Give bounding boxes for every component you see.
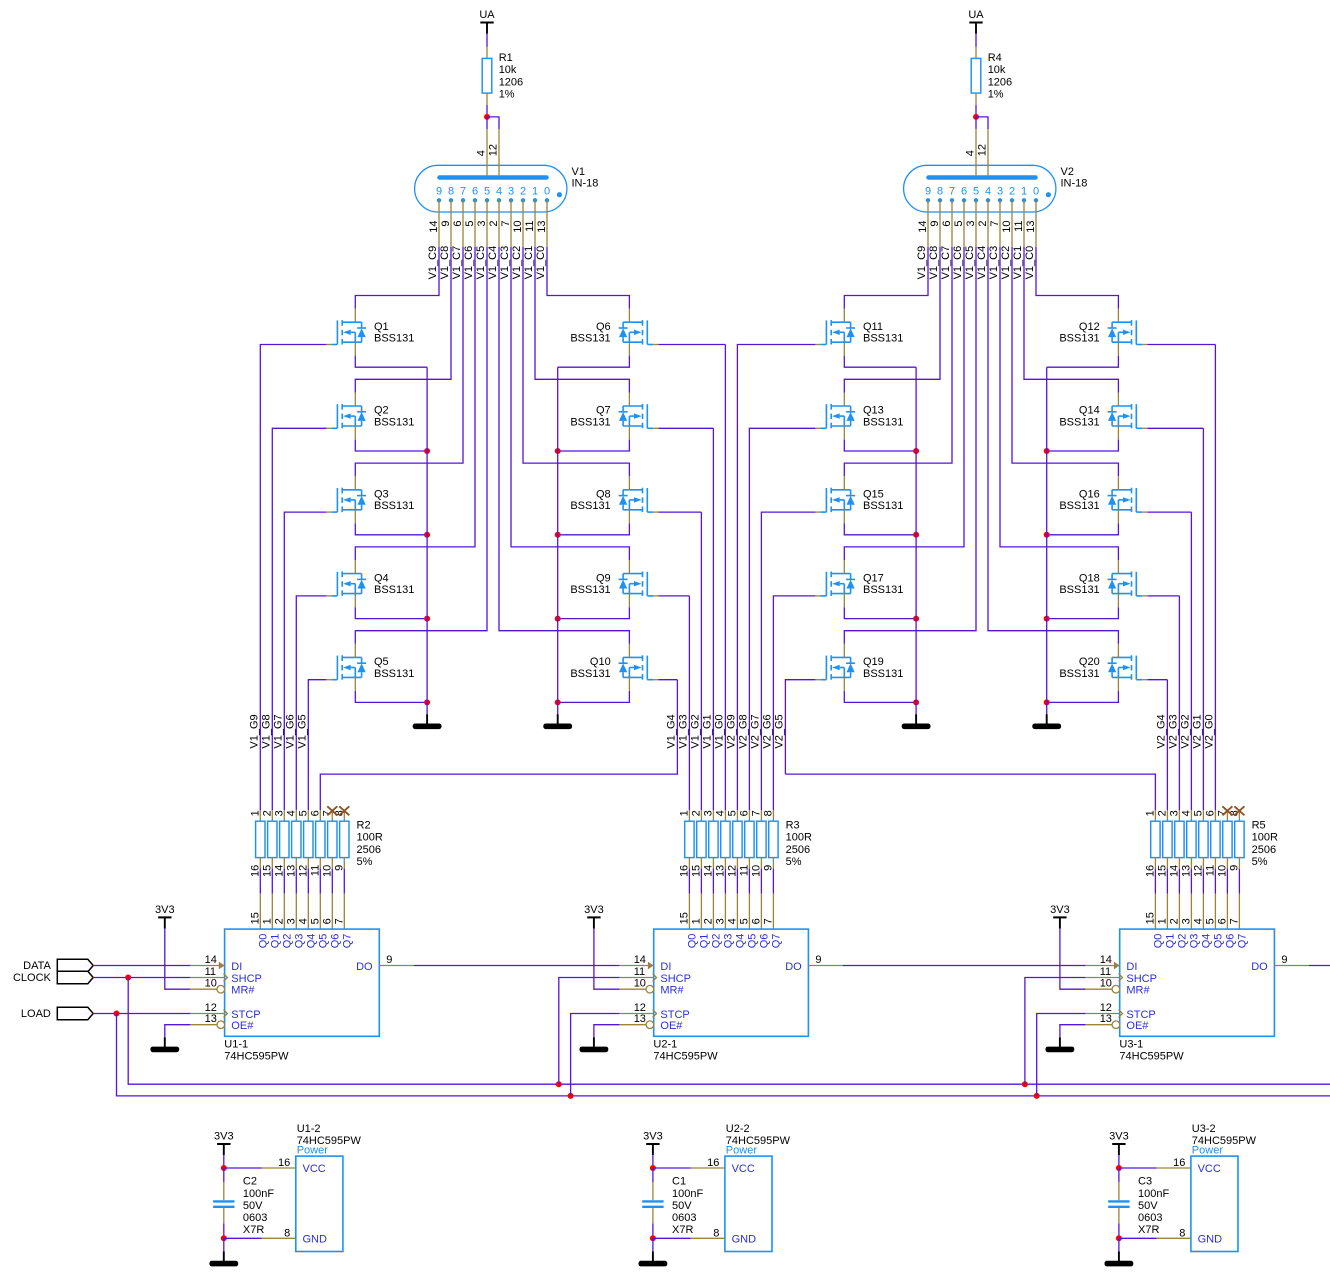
cathode pin lead V1_C3 [999,200,1001,246]
wire CLOCK to U3 [1025,978,1086,1085]
svg-text:V1_G3: V1_G3 [678,714,690,748]
wire V2_G7 [761,512,815,810]
svg-text:Q6: Q6 [596,321,611,333]
svg-text:12: 12 [1192,865,1204,877]
cathode pin lead V1_C3 [510,200,512,246]
cathode pin lead V1_C9 [927,200,929,246]
cathode pin lead V1_C2 [522,200,524,246]
wire V1_C1 to drain [535,247,629,393]
svg-text:2: 2 [702,918,714,924]
wire to ground [223,1238,225,1251]
svg-text:BSS131: BSS131 [1059,668,1099,680]
svg-text:14: 14 [917,221,929,233]
svg-text:100R: 100R [1252,832,1278,844]
svg-text:9: 9 [440,221,452,227]
svg-text:1: 1 [678,810,690,816]
svg-text:Q20: Q20 [1079,656,1100,668]
svg-text:6: 6 [309,810,321,816]
svg-text:DO: DO [356,961,373,973]
svg-text:Q1: Q1 [374,321,389,333]
svg-text:2: 2 [261,810,273,816]
pin 11 SHCP [1085,966,1157,985]
svg-text:6: 6 [452,221,464,227]
port DATA [23,959,93,972]
svg-text:9: 9 [929,221,941,227]
svg-text:10: 10 [1001,221,1013,233]
svg-text:15: 15 [678,912,690,924]
svg-text:Q5: Q5 [318,934,330,949]
svg-text:Q6: Q6 [330,934,342,949]
svg-text:V1_C9: V1_C9 [916,246,928,280]
transistor Q20 [1059,644,1147,691]
wire V1_C6 to drain [355,247,475,560]
svg-text:2506: 2506 [786,844,810,856]
power UA [479,9,495,34]
svg-text:4: 4 [726,918,738,924]
svg-text:V1_G2: V1_G2 [690,714,702,748]
svg-text:Power: Power [297,1145,329,1157]
svg-text:UA: UA [968,9,984,21]
svg-text:DI: DI [1126,961,1137,973]
svg-text:10: 10 [750,865,762,877]
svg-text:3: 3 [714,918,726,924]
wire to register [1202,869,1204,894]
svg-text:Q3: Q3 [374,489,389,501]
ground [902,714,931,729]
svg-text:BSS131: BSS131 [374,668,414,680]
wire V1_C0 to drain [1036,247,1118,309]
svg-text:100nF: 100nF [243,1188,274,1200]
svg-text:Q11: Q11 [863,321,883,333]
svg-text:Q19: Q19 [863,656,884,668]
pin 10 MR# [190,978,255,997]
wire LOAD bus [117,1014,1330,1096]
svg-text:8: 8 [713,1227,719,1239]
svg-text:Q18: Q18 [1079,572,1100,584]
pin 14 DI [619,954,671,973]
svg-text:R1: R1 [499,52,513,64]
wire UA to R4 [975,34,977,47]
power 3V3 [1109,1130,1129,1155]
wire to ground [652,1238,654,1251]
svg-text:1: 1 [1021,185,1027,197]
wire to register [724,869,726,894]
svg-text:Q2: Q2 [711,934,723,949]
svg-text:16: 16 [1173,1157,1185,1169]
svg-text:50V: 50V [243,1200,263,1212]
svg-text:Q1: Q1 [699,934,711,949]
junction VCC [1116,1165,1122,1171]
svg-text:V2_G4: V2_G4 [1156,714,1168,748]
junction LOAD [114,1011,120,1017]
svg-text:8: 8 [1179,1227,1185,1239]
svg-text:50V: 50V [1138,1200,1158,1212]
wire V2_G2 vertical [1190,512,1192,810]
svg-text:3V3: 3V3 [1109,1130,1129,1142]
wire to register [772,869,774,894]
svg-text:R5: R5 [1252,820,1266,832]
svg-text:V1_G8: V1_G8 [261,714,273,748]
svg-text:Q2: Q2 [374,405,389,417]
wire V1_C5 to drain [844,247,976,644]
pin 4 lead [975,129,977,175]
wire U1 DO to U2 DI [414,965,620,967]
svg-text:50V: 50V [672,1200,692,1212]
svg-text:V1_G9: V1_G9 [249,714,261,748]
svg-text:Q7: Q7 [342,934,354,949]
svg-text:BSS131: BSS131 [863,333,903,345]
svg-text:BSS131: BSS131 [1059,584,1099,596]
wire V1_C4 to drain [988,247,1118,644]
power 3V3 [643,1130,663,1155]
svg-text:BSS131: BSS131 [863,668,903,680]
svg-text:V2: V2 [1061,166,1074,178]
pin 11 SHCP [190,966,262,985]
svg-text:7: 7 [989,221,1001,227]
cathode pin lead V1_C6 [963,200,965,246]
wire V1_C6 to drain [844,247,964,560]
pin 11 SHCP [619,966,691,985]
cathode pin lead V1_C4 [987,200,989,246]
wire 3V3 to MR# [165,929,191,990]
svg-text:5: 5 [297,810,309,816]
wire GND pin [224,1237,262,1239]
wire gnd bus left [426,367,428,714]
svg-text:Q9: Q9 [596,572,611,584]
wire V1_G0 stub [658,344,725,346]
junction source [555,699,561,705]
svg-text:V2_G3: V2_G3 [1168,714,1180,748]
svg-text:1%: 1% [499,89,515,101]
svg-text:7: 7 [460,185,466,197]
svg-text:3: 3 [1180,918,1192,924]
svg-text:V1_G4: V1_G4 [666,714,678,748]
wire V1_C7 to drain [844,247,952,477]
wire LOAD to U3 [1037,1014,1086,1096]
svg-text:2506: 2506 [357,844,381,856]
wire U3 DO out [1309,965,1330,967]
svg-text:3: 3 [476,221,488,227]
junction VCC [650,1165,656,1171]
svg-text:BSS131: BSS131 [374,416,414,428]
svg-text:12: 12 [1100,1002,1112,1014]
wire to register [319,869,321,894]
svg-text:BSS131: BSS131 [374,500,414,512]
wire gnd bus right [557,367,559,714]
pin 10 MR# [619,978,684,997]
wire R4 to anode [975,105,977,117]
svg-text:X7R: X7R [243,1224,264,1236]
svg-text:6: 6 [1204,810,1216,816]
svg-text:1: 1 [1144,810,1156,816]
wire source Q14 [1047,440,1119,451]
svg-text:V2_G0: V2_G0 [1204,714,1216,748]
svg-text:100R: 100R [786,832,812,844]
svg-text:12: 12 [634,1002,646,1014]
svg-text:5: 5 [726,810,738,816]
transistor Q14 [1059,393,1147,440]
no-connect pin 7 [327,806,337,815]
svg-text:13: 13 [1180,865,1192,877]
capacitor C1 [642,1168,703,1238]
wire GND pin [1119,1237,1157,1239]
cathode pin lead V1_C0 [1035,200,1037,246]
svg-text:11: 11 [1100,966,1111,978]
wire to register [688,869,690,894]
svg-text:V1_C3: V1_C3 [988,246,1000,280]
svg-text:1206: 1206 [499,76,523,88]
svg-text:Q7: Q7 [1237,934,1249,949]
svg-text:74HC595PW: 74HC595PW [224,1051,289,1063]
svg-text:MR#: MR# [660,985,684,997]
svg-text:Q7: Q7 [596,405,611,417]
svg-text:1%: 1% [988,89,1004,101]
svg-text:Q0: Q0 [687,934,699,949]
svg-text:5: 5 [1192,810,1204,816]
wire to register [259,869,261,894]
svg-text:BSS131: BSS131 [570,500,610,512]
wire V1_C7 to drain [355,247,463,477]
svg-text:Q8: Q8 [596,489,611,501]
svg-text:11: 11 [1013,221,1025,232]
power 3V3 [155,904,175,929]
nixie tube V2 [904,165,1088,212]
svg-text:Q5: Q5 [374,656,389,668]
svg-text:Q2: Q2 [282,934,294,949]
svg-text:5: 5 [738,918,750,924]
svg-text:OE#: OE# [1126,1020,1149,1032]
svg-text:V2_G1: V2_G1 [1192,714,1204,748]
wire source Q9 [558,607,630,618]
svg-text:100nF: 100nF [672,1188,703,1200]
svg-text:5: 5 [309,918,321,924]
svg-text:15: 15 [1156,865,1168,877]
svg-text:12: 12 [488,144,500,156]
wire source Q11 [844,356,916,367]
pin 13 OE# [1085,1013,1149,1032]
wire 3V3 to MR# [594,929,620,990]
pin 9 DO [356,954,414,973]
svg-text:4: 4 [714,810,726,816]
svg-text:14: 14 [273,865,285,877]
svg-text:6: 6 [321,918,333,924]
svg-text:IN-18: IN-18 [572,178,599,190]
svg-text:BSS131: BSS131 [570,416,610,428]
svg-text:BSS131: BSS131 [570,333,610,345]
svg-text:11: 11 [634,966,645,978]
svg-text:16: 16 [707,1157,719,1169]
ground [1046,1037,1075,1052]
wire source Q4 [355,607,427,618]
svg-text:V1: V1 [572,166,585,178]
svg-text:V1_C4: V1_C4 [487,246,499,280]
wire to register [736,869,738,894]
transistor Q19 [815,644,903,691]
wire LOAD [93,1013,191,1015]
svg-text:10: 10 [634,978,646,990]
wire to register [1190,869,1192,894]
svg-text:15: 15 [261,865,273,877]
cathode pin lead V1_C8 [450,200,452,246]
svg-text:13: 13 [285,865,297,877]
ground [209,1252,238,1267]
wire V1_G2 vertical [700,512,702,810]
wire anode pin 4 [975,117,977,129]
wire V2_G0 vertical [1214,345,1216,811]
svg-text:V1_C0: V1_C0 [1024,246,1036,280]
wire V2_G2 stub [1147,511,1191,513]
wire V1_C2 to drain [1012,247,1118,477]
svg-text:11: 11 [524,221,536,232]
svg-text:V1_C5: V1_C5 [964,246,976,280]
wire V2_G5 route [785,774,1155,810]
svg-text:Q0: Q0 [258,934,270,949]
wire to register [1238,869,1240,894]
ground [413,714,442,729]
svg-text:13: 13 [1025,221,1037,233]
transistor Q7 [570,393,658,440]
transistor Q6 [570,309,658,356]
port CLOCK [13,971,93,984]
svg-text:R4: R4 [988,52,1002,64]
wire source Q8 [558,523,630,534]
junction anode [973,114,979,120]
svg-text:BSS131: BSS131 [863,416,903,428]
junction LOAD riser U3 [1034,1093,1040,1099]
svg-text:3: 3 [1168,810,1180,816]
svg-text:V1_C1: V1_C1 [1012,246,1024,280]
svg-text:9: 9 [762,865,774,871]
svg-text:14: 14 [1168,865,1180,877]
svg-text:2: 2 [273,918,285,924]
svg-text:4: 4 [476,150,488,156]
wire V1_G2 stub [658,511,701,513]
svg-text:3V3: 3V3 [155,904,175,916]
svg-text:BSS131: BSS131 [863,584,903,596]
junction source [424,532,430,538]
svg-text:15: 15 [1144,912,1156,924]
svg-text:BSS131: BSS131 [1059,500,1099,512]
svg-text:X7R: X7R [1138,1224,1159,1236]
svg-text:Q10: Q10 [590,656,611,668]
svg-text:U2-2: U2-2 [726,1123,750,1135]
junction source [555,616,561,622]
svg-text:5%: 5% [786,856,802,868]
svg-text:DO: DO [785,961,802,973]
wire V1_C5 to drain [355,247,487,644]
svg-text:10: 10 [321,865,333,877]
svg-text:Q15: Q15 [863,489,884,501]
junction VCC [221,1165,227,1171]
svg-text:DI: DI [231,961,242,973]
svg-text:1: 1 [261,918,273,924]
wire to register [712,869,714,894]
svg-text:6: 6 [1216,918,1228,924]
wire source Q16 [1047,523,1119,534]
wire 3V3 [652,1155,654,1168]
svg-text:4: 4 [965,150,977,156]
port LOAD [21,1007,93,1020]
wire source Q13 [844,440,916,451]
transistor Q17 [815,560,903,607]
transistor Q10 [570,644,658,691]
svg-text:9: 9 [815,954,821,966]
svg-text:Q4: Q4 [1201,934,1213,949]
resistor R4 [971,47,1012,105]
svg-text:BSS131: BSS131 [863,500,903,512]
svg-text:12: 12 [726,865,738,877]
svg-text:V1_C6: V1_C6 [952,246,964,280]
wire V2_G8 [749,428,815,810]
svg-text:13: 13 [634,1013,646,1025]
wire anode pin 4 [486,117,488,129]
wire V1_C3 to drain [1000,247,1118,560]
pin 12 lead [987,129,989,175]
svg-text:11: 11 [1204,865,1216,876]
svg-text:UA: UA [479,9,495,21]
svg-text:V2_G7: V2_G7 [750,714,762,748]
svg-text:3: 3 [508,185,514,197]
wire OE# to ground [594,1025,620,1038]
cathode pin lead V1_C1 [1023,200,1025,246]
svg-text:9: 9 [1228,865,1240,871]
svg-text:0603: 0603 [243,1212,267,1224]
junction GND [221,1235,227,1241]
wire to register [760,869,762,894]
svg-text:12: 12 [297,865,309,877]
svg-text:16: 16 [1144,865,1156,877]
cathode pin lead V1_C8 [939,200,941,246]
wire V2_G0 stub [1147,344,1215,346]
transistor Q9 [570,560,658,607]
svg-text:14: 14 [205,954,217,966]
svg-text:SHCP: SHCP [1126,973,1157,985]
svg-text:14: 14 [1100,954,1112,966]
svg-text:8: 8 [284,1227,290,1239]
wire gnd bus left [915,367,917,714]
svg-text:7: 7 [500,221,512,227]
svg-text:2: 2 [690,810,702,816]
wire V1_G5 [308,680,326,811]
wire V1_C0 to drain [547,247,629,309]
wire V1_C9 to drain [844,247,928,309]
resistor network R2 [249,806,383,877]
transistor Q1 [326,309,414,356]
wire V2_G3 stub [1147,595,1179,597]
transistor Q13 [815,393,903,440]
junction LOAD riser U2 [568,1093,574,1099]
svg-text:R3: R3 [786,820,800,832]
ground [639,1252,668,1267]
wire DATA [93,965,191,967]
svg-text:4: 4 [1180,810,1192,816]
svg-text:0603: 0603 [1138,1212,1162,1224]
wire source Q7 [558,440,630,451]
svg-text:C3: C3 [1138,1176,1152,1188]
svg-text:V1_G1: V1_G1 [702,714,714,748]
svg-text:Q6: Q6 [1225,934,1237,949]
svg-text:6: 6 [961,185,967,197]
wire to register [307,869,309,894]
junction source [1044,532,1050,538]
svg-text:V1_C5: V1_C5 [475,246,487,280]
svg-text:SHCP: SHCP [660,973,691,985]
svg-text:SHCP: SHCP [231,973,262,985]
svg-text:11: 11 [205,966,216,978]
svg-text:Q17: Q17 [863,572,884,584]
svg-text:V2_G6: V2_G6 [762,714,774,748]
wire GND pin [653,1237,691,1239]
